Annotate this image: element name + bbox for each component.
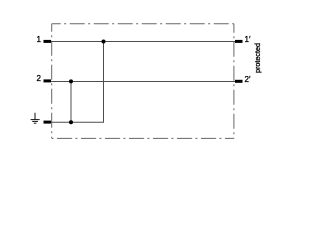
svg-text:protected: protected — [253, 43, 262, 73]
terminal ground (left bar) — [44, 121, 52, 124]
ground symbol — [31, 113, 40, 123]
enclosure dash-dot border bottom — [52, 137, 234, 139]
enclosure dash-dot border left — [51, 24, 53, 139]
terminal 2' (right bar) — [235, 80, 243, 83]
node junction dot on line 1 — [102, 40, 106, 44]
enclosure dash-dot border top — [52, 23, 234, 25]
wire line 2 (terminal 2 to 2') — [47, 81, 237, 83]
terminal 1' (right bar) — [235, 40, 243, 43]
wire vertical from line 1 to ground line — [103, 42, 105, 123]
wire ground line — [46, 121, 104, 123]
svg-text:1: 1 — [37, 35, 42, 44]
enclosure dash-dot border right — [233, 24, 235, 139]
wire vertical from line 2 to ground line — [70, 82, 72, 123]
node junction dot on ground line — [69, 120, 73, 124]
svg-text:2′: 2′ — [245, 75, 251, 84]
svg-text:2: 2 — [37, 74, 42, 83]
terminal 2 (left bar) — [44, 79, 52, 82]
wire line 1 (terminal 1 to 1') — [47, 41, 237, 43]
node junction dot on line 2 — [69, 79, 73, 83]
terminal 1 (left bar) — [44, 40, 52, 43]
svg-text:1′: 1′ — [245, 35, 251, 44]
